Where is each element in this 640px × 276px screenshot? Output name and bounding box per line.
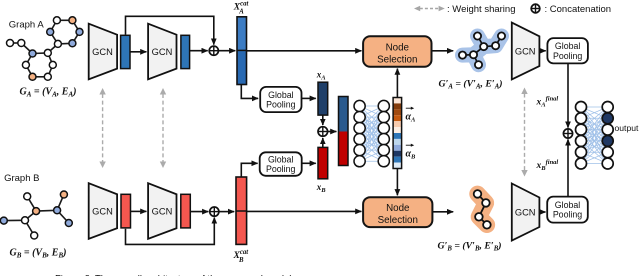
svg-text:Global: Global — [268, 90, 293, 100]
svg-text:GA = (VA, EA): GA = (VA, EA) — [20, 87, 77, 99]
svg-text:Global: Global — [555, 41, 580, 51]
svg-text:Node: Node — [386, 43, 410, 54]
svg-text:Pooling: Pooling — [266, 164, 295, 174]
svg-text:xA: xA — [316, 70, 327, 82]
svg-text:Pooling: Pooling — [266, 100, 295, 110]
svg-text:B: B — [238, 257, 244, 264]
svg-text:G′A = (V′A, E′A): G′A = (V′A, E′A) — [439, 79, 503, 91]
svg-text:Global: Global — [555, 200, 580, 210]
svg-text:αB: αB — [406, 149, 417, 161]
svg-text:GCN: GCN — [515, 47, 536, 57]
svg-text:GB = (VB, EB): GB = (VB, EB) — [10, 248, 67, 260]
svg-text:xB: xB — [316, 182, 327, 194]
svg-text:GCN: GCN — [152, 207, 173, 217]
svg-text:G′B = (V′B, E′B): G′B = (V′B, E′B) — [438, 241, 502, 253]
svg-text:: Weight sharing: : Weight sharing — [447, 4, 515, 15]
svg-text:GCN: GCN — [92, 47, 113, 57]
svg-text:Selection: Selection — [377, 54, 417, 65]
svg-text:: Concatenation: : Concatenation — [545, 4, 612, 15]
svg-text:Pooling: Pooling — [553, 51, 582, 61]
svg-text:GCN: GCN — [92, 207, 113, 217]
svg-text:A: A — [238, 8, 244, 15]
svg-text:xBfinal: xBfinal — [536, 159, 559, 172]
svg-text:GCN: GCN — [515, 208, 536, 218]
svg-text:Global: Global — [268, 154, 293, 164]
svg-text:xAfinal: xAfinal — [536, 96, 559, 109]
svg-text:GCN: GCN — [152, 47, 173, 57]
svg-text:Node: Node — [386, 203, 410, 214]
svg-text:output: output — [615, 123, 640, 133]
svg-text:Graph B: Graph B — [4, 173, 39, 184]
svg-text:αA: αA — [406, 112, 417, 124]
svg-text:Pooling: Pooling — [553, 210, 582, 220]
svg-text:Selection: Selection — [378, 215, 418, 226]
svg-text:Graph A: Graph A — [9, 20, 45, 31]
